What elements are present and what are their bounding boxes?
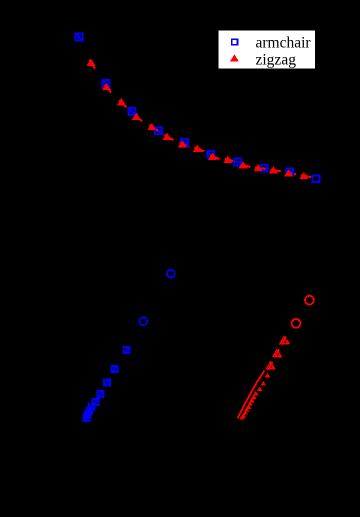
svg-text:zigzag: zigzag [256,52,297,69]
svg-text:armchair: armchair [256,35,312,52]
